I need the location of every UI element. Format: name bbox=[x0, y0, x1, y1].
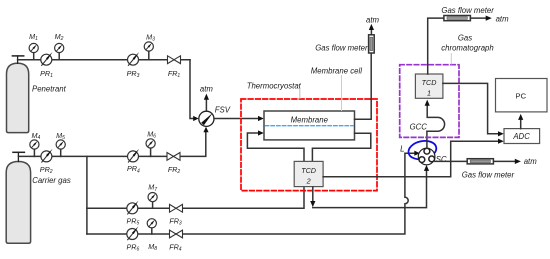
wire meter to atm arrow bbox=[370, 30, 372, 35]
svg-text:1: 1 bbox=[427, 88, 431, 97]
wire retentate out to vertical flow meter bbox=[355, 53, 372, 119]
gas flow meter (vertical rotameter) bbox=[369, 35, 375, 53]
thermocryostat red dashed enclosure bbox=[241, 99, 377, 191]
wire TCD2 outlet down and right to SC bbox=[312, 187, 314, 201]
computer PC box bbox=[496, 79, 548, 112]
arrow atm (top middle) bbox=[369, 24, 374, 30]
arrow atm (right) bbox=[515, 159, 521, 164]
gauge M8 bbox=[147, 219, 156, 234]
regulator PR2 bbox=[41, 149, 53, 162]
wire FSV vent up bbox=[205, 100, 207, 111]
wire TCD1 signal to ADC bbox=[443, 83, 498, 133]
svg-text:Carrier gas: Carrier gas bbox=[32, 176, 71, 185]
svg-text:Membrane: Membrane bbox=[291, 116, 329, 125]
wire SC top to GCC bbox=[426, 131, 428, 148]
valve FR2 bbox=[167, 153, 180, 161]
svg-text:L: L bbox=[400, 145, 404, 154]
wire row3 sweep line to TCD2 bbox=[87, 187, 304, 208]
wire drop to FSV bbox=[190, 60, 194, 119]
sample loop L (blue ellipse) bbox=[407, 138, 438, 161]
wire SC right to flow meter and atm bbox=[435, 160, 515, 162]
gauge M3 bbox=[144, 42, 153, 60]
arrow into FSV bottom bbox=[203, 127, 208, 133]
gas flow meter (top right, horizontal rotameter) bbox=[444, 16, 471, 21]
detector TCD2 box bbox=[294, 161, 323, 186]
arrow atm (top right) bbox=[486, 16, 492, 21]
svg-text:TCD: TCD bbox=[422, 78, 437, 87]
arrow into SC left bbox=[414, 151, 420, 156]
regulator PR1 bbox=[41, 52, 53, 65]
wire branch down from row2 bbox=[86, 156, 88, 234]
leader Membrane cell bbox=[341, 76, 343, 111]
gauge M4 bbox=[30, 140, 39, 157]
arrow into ADC upper input bbox=[498, 131, 504, 136]
leader Thermocryostat bbox=[299, 90, 301, 99]
valve FR4 bbox=[170, 230, 183, 238]
wire ADC to PC bbox=[520, 120, 522, 129]
sampling valve SC bbox=[418, 148, 435, 165]
wire row4 loop-feed line with hop up to SC bbox=[87, 153, 414, 234]
arrow into membrane sweep port bbox=[258, 130, 264, 135]
gauge M5 bbox=[56, 140, 65, 157]
arrow into FSV left bbox=[193, 116, 198, 121]
svg-text:TCD: TCD bbox=[301, 166, 316, 175]
gauge M6 bbox=[146, 139, 155, 157]
svg-text:atm: atm bbox=[200, 84, 214, 93]
svg-text:chromatograph: chromatograph bbox=[441, 44, 493, 53]
gas cylinder 1 (Penetrant tank) bbox=[7, 56, 29, 133]
arrow into TCD1 bottom bbox=[425, 100, 430, 106]
detector TCD1 box bbox=[415, 74, 443, 98]
arrow into ADC lower input bbox=[498, 139, 504, 144]
arrow into membrane feed bbox=[258, 116, 264, 121]
membrane blue dashed line bbox=[265, 125, 353, 127]
column GCC bbox=[427, 106, 444, 131]
regulator PR3 bbox=[128, 52, 140, 65]
arrow into SC bottom bbox=[424, 165, 429, 171]
wire row1 penetrant line bbox=[18, 59, 190, 61]
svg-text:Membrane cell: Membrane cell bbox=[311, 67, 362, 76]
wire TCD2 signal to ADC bbox=[323, 141, 498, 177]
svg-text:ADC: ADC bbox=[512, 132, 530, 141]
svg-text:GCC: GCC bbox=[410, 122, 428, 131]
gas cylinder 2 (Carrier gas tank) bbox=[6, 152, 30, 243]
svg-text:atm: atm bbox=[524, 157, 538, 166]
gauge M2 bbox=[55, 43, 64, 59]
gauge M1 bbox=[29, 43, 38, 59]
regulator PR6 bbox=[127, 226, 139, 239]
svg-text:Gas flow meter: Gas flow meter bbox=[441, 6, 494, 15]
wire FSV to membrane cell bbox=[214, 118, 258, 120]
arrow atm above FSV bbox=[204, 94, 209, 100]
wire TCD1 top to flow meter and atm bbox=[428, 18, 444, 74]
svg-text:Gas: Gas bbox=[458, 34, 472, 43]
membrane cell box bbox=[264, 111, 355, 140]
converter ADC box bbox=[504, 129, 540, 144]
svg-text:PC: PC bbox=[516, 91, 527, 100]
gauge M7 bbox=[148, 193, 157, 209]
leader Gas chromatograph bbox=[450, 54, 452, 65]
gas flow meter (right, horizontal rotameter) bbox=[467, 159, 493, 164]
regulator PR4 bbox=[128, 149, 140, 162]
svg-text:Thermocryostat: Thermocryostat bbox=[247, 81, 302, 90]
op valve FSV bbox=[199, 111, 214, 126]
wire meter to atm arrow bbox=[470, 17, 486, 19]
wire row2 carrier line bbox=[18, 133, 205, 157]
valve FR3 bbox=[170, 204, 183, 212]
svg-text:FSV: FSV bbox=[215, 105, 231, 114]
svg-text:Gas flow meter: Gas flow meter bbox=[315, 44, 368, 53]
arrow into PC bottom bbox=[518, 114, 523, 120]
svg-text:atm: atm bbox=[496, 14, 510, 23]
svg-text:SC: SC bbox=[436, 155, 447, 164]
svg-text:atm: atm bbox=[366, 15, 380, 24]
wire outlet to SC bottom bbox=[313, 171, 427, 208]
gas chromatograph purple dashed enclosure bbox=[400, 65, 459, 138]
wire permeate out to TCD2 bbox=[312, 133, 370, 161]
svg-text:Gas flow meter: Gas flow meter bbox=[462, 170, 515, 179]
arrow TCD2 outlet down bbox=[310, 201, 315, 207]
regulator PR5 bbox=[127, 201, 139, 214]
wire sweep from TCD2 to membrane lower chamber bbox=[247, 133, 304, 161]
svg-text:2: 2 bbox=[306, 176, 311, 185]
svg-text:Penetrant: Penetrant bbox=[32, 85, 67, 94]
valve FR1 bbox=[168, 56, 181, 64]
